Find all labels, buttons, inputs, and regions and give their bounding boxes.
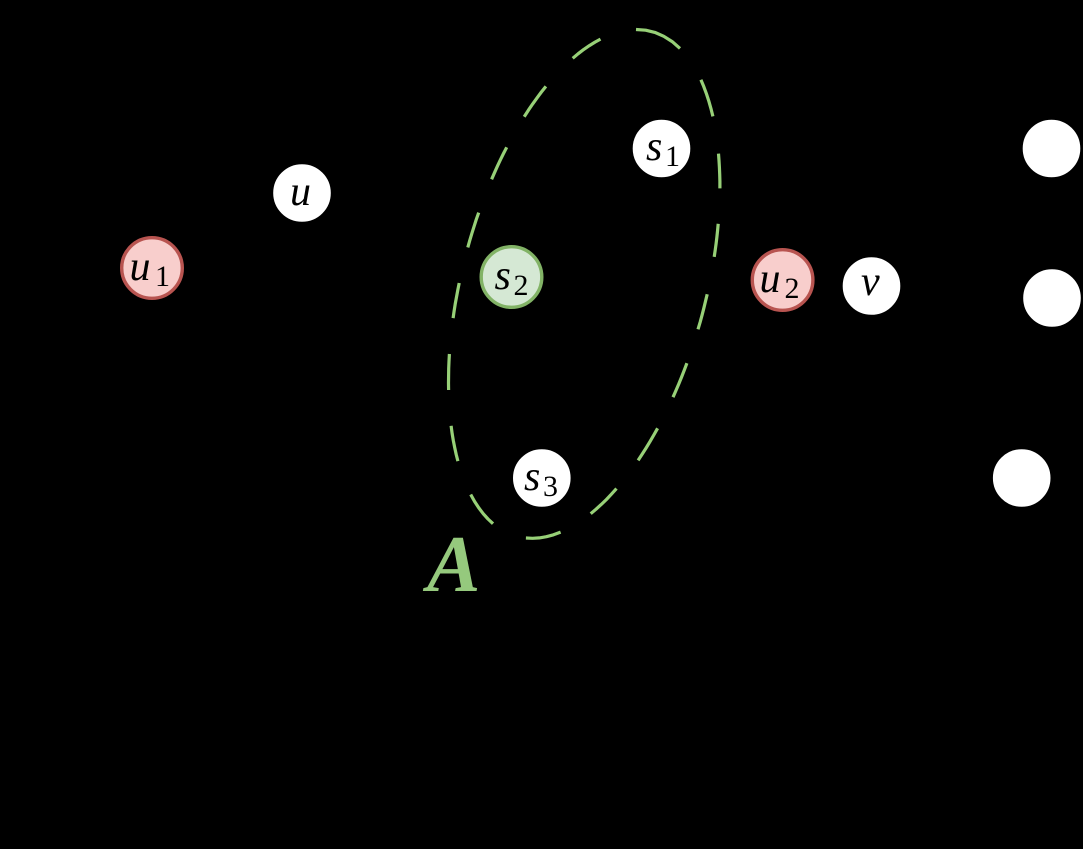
node s3 [512, 448, 573, 509]
set A dashed ellipse [449, 30, 720, 539]
svg-text:A: A [422, 521, 480, 609]
svg-text:s: s [646, 124, 662, 170]
node s2 [481, 247, 542, 308]
svg-text:v: v [861, 259, 880, 305]
svg-text:3: 3 [543, 470, 558, 503]
svg-text:2: 2 [785, 272, 800, 305]
svg-text:2: 2 [514, 269, 529, 302]
svg-text:u: u [130, 244, 151, 290]
svg-text:1: 1 [155, 260, 170, 293]
node right-bottom [991, 448, 1052, 509]
svg-text:u: u [290, 169, 311, 215]
node u2 [752, 250, 813, 311]
svg-text:u: u [760, 256, 781, 302]
svg-text:s: s [524, 454, 540, 500]
node u1 [122, 238, 183, 299]
node s1 [631, 118, 692, 179]
node right-middle [1022, 268, 1083, 329]
svg-text:1: 1 [665, 140, 680, 173]
node u [272, 163, 333, 224]
node right-top [1021, 118, 1082, 179]
svg-text:s: s [495, 253, 511, 299]
node v [841, 256, 902, 317]
